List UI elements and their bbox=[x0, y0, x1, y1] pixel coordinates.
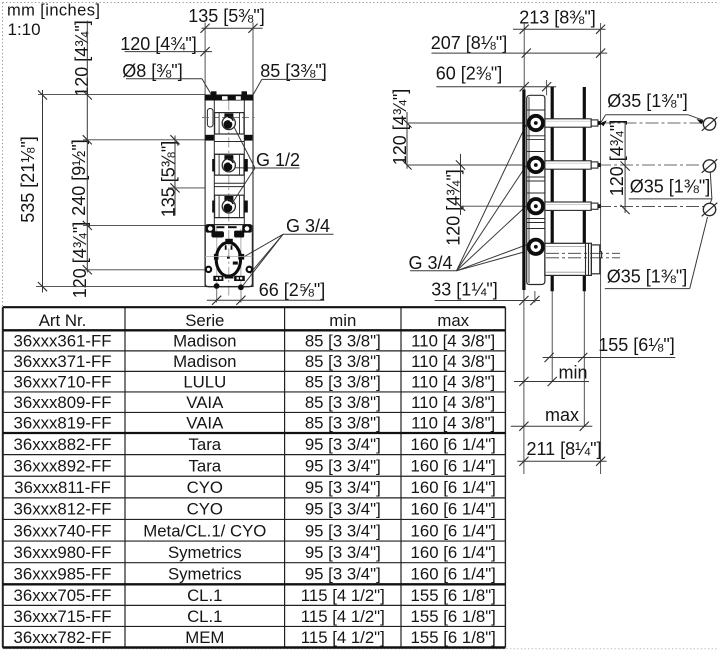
svg-text:85 [3 3/8"]: 85 [3 3/8"] bbox=[305, 414, 381, 433]
svg-text:CYO: CYO bbox=[187, 500, 223, 519]
svg-text:211 [8¼"]: 211 [8¼"] bbox=[526, 439, 601, 459]
svg-text:36xxx705-FF: 36xxx705-FF bbox=[14, 586, 112, 605]
svg-text:155 [6⅛"]: 155 [6⅛"] bbox=[598, 335, 674, 355]
svg-text:95 [3 3/4"]: 95 [3 3/4"] bbox=[305, 500, 381, 519]
svg-text:Tara: Tara bbox=[188, 435, 221, 454]
svg-text:36xxx819-FF: 36xxx819-FF bbox=[14, 414, 112, 433]
svg-text:85 [3 3/8"]: 85 [3 3/8"] bbox=[305, 393, 381, 412]
svg-text:95 [3 3/4"]: 95 [3 3/4"] bbox=[305, 435, 381, 454]
svg-text:G 3/4: G 3/4 bbox=[408, 253, 452, 273]
svg-text:110 [4 3/8"]: 110 [4 3/8"] bbox=[411, 414, 495, 433]
svg-text:LULU: LULU bbox=[183, 373, 226, 392]
svg-text:160 [6 1/4"]: 160 [6 1/4"] bbox=[411, 500, 496, 519]
svg-text:MEM: MEM bbox=[185, 628, 224, 647]
svg-text:Ø8 [⅜"]: Ø8 [⅜"] bbox=[122, 61, 182, 81]
svg-text:95 [3 3/4"]: 95 [3 3/4"] bbox=[305, 456, 381, 475]
svg-text:213 [8⅜"]: 213 [8⅜"] bbox=[519, 7, 595, 27]
svg-text:36xxx882-FF: 36xxx882-FF bbox=[14, 435, 112, 454]
svg-text:VAIA: VAIA bbox=[186, 414, 224, 433]
svg-text:95 [3 3/4"]: 95 [3 3/4"] bbox=[305, 543, 381, 562]
svg-text:VAIA: VAIA bbox=[186, 393, 224, 412]
svg-text:115 [4 1/2"]: 115 [4 1/2"] bbox=[301, 586, 385, 605]
svg-text:Ø35 [1⅜"]: Ø35 [1⅜"] bbox=[607, 91, 687, 111]
svg-text:85 [3 3/8"]: 85 [3 3/8"] bbox=[305, 332, 381, 351]
svg-text:120 [4¾"]: 120 [4¾"] bbox=[607, 120, 627, 196]
svg-text:Tara: Tara bbox=[188, 456, 221, 475]
svg-text:36xxx985-FF: 36xxx985-FF bbox=[14, 564, 112, 583]
svg-text:Meta/CL.1/ CYO: Meta/CL.1/ CYO bbox=[143, 521, 266, 540]
svg-text:95 [3 3/4"]: 95 [3 3/4"] bbox=[305, 478, 381, 497]
svg-text:G 1/2: G 1/2 bbox=[256, 150, 300, 170]
svg-text:min: min bbox=[558, 363, 587, 383]
svg-text:120 [4¾"]: 120 [4¾"] bbox=[72, 20, 92, 96]
svg-text:36xxx361-FF: 36xxx361-FF bbox=[14, 332, 112, 351]
svg-text:95 [3 3/4"]: 95 [3 3/4"] bbox=[305, 564, 381, 583]
svg-text:110 [4 3/8"]: 110 [4 3/8"] bbox=[411, 352, 495, 371]
svg-text:160 [6 1/4"]: 160 [6 1/4"] bbox=[411, 456, 496, 475]
svg-text:G 3/4: G 3/4 bbox=[286, 216, 330, 236]
svg-text:110 [4 3/8"]: 110 [4 3/8"] bbox=[411, 393, 495, 412]
svg-text:CL.1: CL.1 bbox=[187, 607, 222, 626]
svg-text:160 [6 1/4"]: 160 [6 1/4"] bbox=[411, 521, 496, 540]
svg-text:Ø35 [1⅜"]: Ø35 [1⅜"] bbox=[630, 176, 710, 196]
svg-text:85 [3⅜"]: 85 [3⅜"] bbox=[260, 61, 326, 81]
svg-text:Ø35 [1⅜"]: Ø35 [1⅜"] bbox=[607, 267, 687, 287]
svg-text:115 [4 1/2"]: 115 [4 1/2"] bbox=[301, 628, 385, 647]
svg-text:Art Nr.: Art Nr. bbox=[39, 311, 87, 330]
svg-text:36xxx371-FF: 36xxx371-FF bbox=[14, 352, 112, 371]
svg-text:36xxx812-FF: 36xxx812-FF bbox=[14, 500, 112, 519]
svg-text:min: min bbox=[329, 311, 356, 330]
svg-text:120 [4¾"]: 120 [4¾"] bbox=[120, 34, 196, 54]
svg-text:36xxx809-FF: 36xxx809-FF bbox=[14, 393, 112, 412]
svg-text:max: max bbox=[437, 311, 469, 330]
svg-text:1:10: 1:10 bbox=[8, 20, 41, 39]
svg-text:36xxx892-FF: 36xxx892-FF bbox=[14, 456, 112, 475]
svg-text:Madison: Madison bbox=[173, 332, 236, 351]
svg-text:110 [4 3/8"]: 110 [4 3/8"] bbox=[411, 332, 495, 351]
svg-text:155 [6 1/8"]: 155 [6 1/8"] bbox=[411, 607, 496, 626]
svg-text:207 [8⅛"]: 207 [8⅛"] bbox=[431, 33, 507, 53]
svg-text:60 [2⅜"]: 60 [2⅜"] bbox=[436, 64, 502, 84]
svg-text:Symetrics: Symetrics bbox=[168, 564, 242, 583]
svg-text:36xxx710-FF: 36xxx710-FF bbox=[14, 373, 112, 392]
svg-text:33 [1¼"]: 33 [1¼"] bbox=[431, 280, 497, 300]
svg-text:110 [4 3/8"]: 110 [4 3/8"] bbox=[411, 373, 495, 392]
svg-text:240 [9½"]: 240 [9½"] bbox=[69, 139, 89, 215]
svg-text:85 [3 3/8"]: 85 [3 3/8"] bbox=[305, 373, 381, 392]
svg-text:max: max bbox=[545, 405, 579, 425]
svg-text:36xxx740-FF: 36xxx740-FF bbox=[14, 521, 112, 540]
svg-text:36xxx782-FF: 36xxx782-FF bbox=[14, 628, 112, 647]
svg-text:Madison: Madison bbox=[173, 352, 236, 371]
svg-text:160 [6 1/4"]: 160 [6 1/4"] bbox=[411, 478, 496, 497]
svg-text:Symetrics: Symetrics bbox=[168, 543, 242, 562]
svg-text:CL.1: CL.1 bbox=[187, 586, 222, 605]
svg-text:160 [6 1/4"]: 160 [6 1/4"] bbox=[411, 564, 496, 583]
svg-text:mm [inches]: mm [inches] bbox=[7, 2, 100, 20]
svg-text:36xxx980-FF: 36xxx980-FF bbox=[14, 543, 112, 562]
svg-text:Serie: Serie bbox=[185, 311, 224, 330]
svg-text:155 [6 1/8"]: 155 [6 1/8"] bbox=[411, 586, 496, 605]
svg-text:115 [4 1/2"]: 115 [4 1/2"] bbox=[301, 607, 385, 626]
svg-text:160 [6 1/4"]: 160 [6 1/4"] bbox=[411, 435, 496, 454]
svg-text:95 [3 3/4"]: 95 [3 3/4"] bbox=[305, 521, 381, 540]
svg-text:66 [2⅝"]: 66 [2⅝"] bbox=[259, 280, 325, 300]
svg-text:160 [6 1/4"]: 160 [6 1/4"] bbox=[411, 543, 496, 562]
svg-text:CYO: CYO bbox=[187, 478, 223, 497]
svg-text:155 [6 1/8"]: 155 [6 1/8"] bbox=[411, 628, 496, 647]
svg-text:85 [3 3/8"]: 85 [3 3/8"] bbox=[305, 352, 381, 371]
svg-text:535 [21⅛"]: 535 [21⅛"] bbox=[18, 136, 38, 222]
svg-text:36xxx715-FF: 36xxx715-FF bbox=[14, 607, 112, 626]
svg-text:36xxx811-FF: 36xxx811-FF bbox=[14, 478, 111, 497]
